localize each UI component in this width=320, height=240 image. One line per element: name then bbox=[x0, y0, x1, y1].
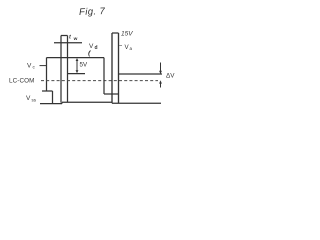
svg-text:Fig. 7: Fig. 7 bbox=[79, 6, 106, 18]
wire Vc high level bbox=[47, 57, 105, 59]
wire LC-COM dashed reference bbox=[41, 80, 158, 82]
wire Va residual level bbox=[119, 73, 162, 75]
svg-text:5V: 5V bbox=[80, 62, 88, 69]
wire Va pulse right edge bbox=[118, 33, 120, 103]
svg-text:t: t bbox=[69, 35, 72, 41]
svg-text:ss: ss bbox=[32, 98, 37, 103]
wire bottom level right bbox=[112, 102, 161, 104]
wire Vd pulse top bbox=[61, 35, 68, 37]
svg-text:LC-COM: LC-COM bbox=[9, 78, 34, 85]
wire Va pulse top bbox=[112, 32, 119, 34]
wire 5V lower level bbox=[68, 73, 86, 75]
wire Vd leader curve bbox=[89, 51, 91, 57]
svg-text:V: V bbox=[27, 63, 32, 70]
wire pulse right edge bbox=[67, 36, 69, 103]
wire Vc trailing edge bbox=[103, 58, 105, 94]
svg-text:V: V bbox=[26, 95, 31, 102]
wire Vc falling edge bbox=[46, 58, 48, 91]
svg-text:ΔV: ΔV bbox=[166, 73, 175, 80]
node deltaV dimension arrows bbox=[160, 63, 162, 72]
wire notch level bbox=[104, 93, 119, 95]
wire pulse left edge bbox=[60, 36, 62, 103]
wire Vd baseline bbox=[54, 42, 82, 44]
wire Vc step down edge bbox=[52, 91, 54, 104]
svg-text:V: V bbox=[89, 43, 94, 50]
svg-text:~: ~ bbox=[119, 43, 123, 50]
wire Vss level left bbox=[40, 103, 62, 105]
node 5V dimension arrow bbox=[76, 59, 78, 72]
wire Vc leader bbox=[40, 65, 47, 67]
svg-text:d: d bbox=[95, 45, 98, 51]
wire Vc step horizontal bbox=[42, 90, 53, 92]
wire Va pulse left edge bbox=[111, 33, 113, 103]
svg-text:c: c bbox=[33, 66, 36, 71]
svg-text:15V: 15V bbox=[121, 31, 133, 38]
svg-text:a: a bbox=[130, 46, 133, 51]
svg-text:w: w bbox=[73, 37, 78, 42]
wire bottom level middle bbox=[62, 102, 112, 103]
